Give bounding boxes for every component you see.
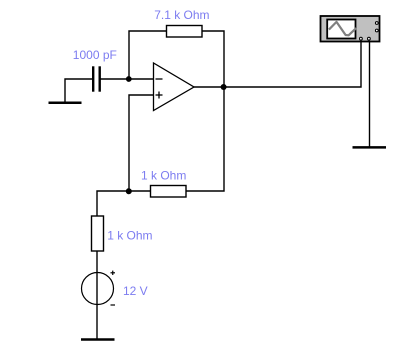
svg-text:1 k Ohm: 1 k Ohm bbox=[107, 229, 152, 243]
svg-text:1 k Ohm: 1 k Ohm bbox=[141, 169, 186, 183]
svg-text:1000 pF: 1000 pF bbox=[73, 48, 117, 62]
svg-text:7.1 k Ohm: 7.1 k Ohm bbox=[154, 8, 209, 22]
svg-text:12 V: 12 V bbox=[123, 284, 148, 298]
